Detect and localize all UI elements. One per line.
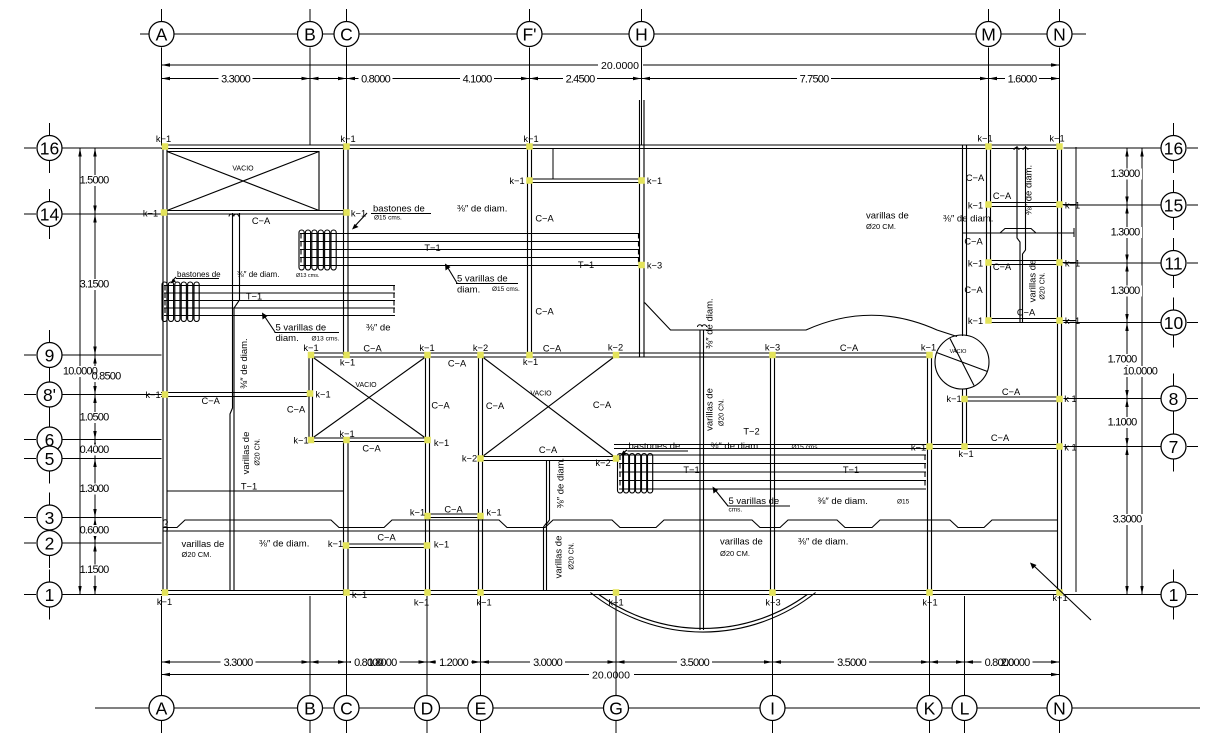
axis cross ticks circle 9 left <box>49 330 51 344</box>
column marker k-1 A/1 <box>162 589 169 596</box>
svg-text:varillas de: varillas de <box>1028 260 1039 303</box>
svg-text:3.1500: 3.1500 <box>80 279 110 291</box>
svg-text:1.8000: 1.8000 <box>368 657 398 669</box>
axis tick right of circle 8 <box>1187 398 1198 400</box>
axis tick left of circle 3 <box>24 517 36 519</box>
axis cross ticks circle 5 left <box>49 434 51 448</box>
svg-text:k−1: k−1 <box>921 343 936 353</box>
column marker k-1 B/6 <box>308 437 315 444</box>
row 11 extension to east wall <box>1062 262 1077 264</box>
left dimension text 10.0000 <box>61 366 99 377</box>
axis tick above circle A top <box>161 9 163 22</box>
wall column N <box>1058 145 1062 595</box>
axis cross ticks circle 15 right <box>1173 180 1175 194</box>
axis row line 10 right <box>1064 322 1161 324</box>
axis tick left of circle 6 <box>24 439 36 441</box>
svg-text:C−A: C−A <box>840 343 859 353</box>
vacio circle at L-10 <box>935 335 989 389</box>
column marker k-1 K/9 <box>926 352 933 359</box>
svg-text:20.0000: 20.0000 <box>592 669 630 681</box>
svg-text:k−1: k−1 <box>1052 593 1067 603</box>
partition line E-G with jog <box>544 461 550 592</box>
svg-text:⅜″ de diam.: ⅜″ de diam. <box>705 298 716 348</box>
leader arrow group3 varillas <box>716 491 728 506</box>
svg-text:k−1: k−1 <box>303 343 318 353</box>
svg-text:3.3000: 3.3000 <box>1113 514 1143 526</box>
column marker k-1 M/10 <box>985 317 992 324</box>
axis tick above circle H top <box>641 9 643 22</box>
column marker k-1 D/9 <box>424 352 431 359</box>
axis extension line A top <box>161 48 163 146</box>
svg-text:1: 1 <box>1169 585 1179 605</box>
svg-text:7.7500: 7.7500 <box>800 74 830 86</box>
right dimension text 1.3000 <box>1108 286 1142 297</box>
svg-text:diam.: diam. <box>457 285 480 296</box>
svg-text:k−3: k−3 <box>765 598 780 608</box>
axis cross ticks circle 3 left <box>49 493 51 507</box>
wall column K <box>928 353 932 595</box>
axis tick left of circle 8' <box>24 394 36 396</box>
svg-text:bastones de: bastones de <box>629 441 681 452</box>
svg-text:bastones de: bastones de <box>373 204 425 215</box>
svg-text:M: M <box>981 24 996 44</box>
svg-text:10: 10 <box>1164 313 1184 333</box>
top overall dimension line 20.0000 <box>162 64 599 66</box>
grid circle 1 left <box>37 582 62 607</box>
svg-text:k−1: k−1 <box>946 394 961 404</box>
svg-text:⅜″ de diam.: ⅜″ de diam. <box>711 441 761 452</box>
svg-text:1.2000: 1.2000 <box>439 657 469 669</box>
column marker k-1 H/FH <box>638 177 645 184</box>
svg-text:k−1: k−1 <box>486 508 501 518</box>
axis cross ticks circle 8 right <box>1173 374 1175 388</box>
svg-text:I: I <box>770 698 775 718</box>
column marker k-1 N/8 <box>1056 396 1063 403</box>
axis extension line H top <box>641 48 643 146</box>
svg-text:VACIO: VACIO <box>950 349 967 355</box>
svg-text:3: 3 <box>45 508 55 528</box>
svg-text:Ø20 CN.: Ø20 CN. <box>255 438 262 465</box>
column marker k-1 N/7 <box>1056 443 1063 450</box>
svg-text:k−1: k−1 <box>647 176 662 186</box>
svg-text:C−A: C−A <box>363 344 382 354</box>
svg-text:k−1: k−1 <box>968 316 983 326</box>
svg-text:3.5000: 3.5000 <box>680 657 710 669</box>
beam row 16 A-N <box>161 145 1062 149</box>
wall column B stair void edge <box>309 353 313 442</box>
svg-text:k−2: k−2 <box>473 343 488 353</box>
svg-text:1: 1 <box>45 585 55 605</box>
svg-text:⅜″ de diam.: ⅜″ de diam. <box>556 458 567 508</box>
svg-text:k−1: k−1 <box>968 259 983 269</box>
axis tick below circle G bottom <box>615 721 617 733</box>
column marker k-1 N/10 <box>1056 317 1063 324</box>
grid circle 16 right <box>1161 136 1186 161</box>
beam row 7 G-N <box>614 445 1062 449</box>
axis extension line N bottom <box>1059 596 1061 695</box>
column marker k-1 M/16 <box>985 143 992 150</box>
svg-text:⅜″ de diam.: ⅜″ de diam. <box>943 214 993 225</box>
grid circle E bottom <box>468 696 493 721</box>
svg-text:1.3000: 1.3000 <box>80 483 110 495</box>
svg-text:Ø15 cms.: Ø15 cms. <box>374 215 402 222</box>
drain pipe line G-I <box>700 330 704 631</box>
axis tick above circle C top <box>346 9 348 22</box>
column marker k-1 D/6 <box>424 437 431 444</box>
svg-text:T−1: T−1 <box>246 292 262 302</box>
shaft rebar line 2 M-N <box>1023 146 1026 322</box>
svg-text:k−1: k−1 <box>414 598 429 608</box>
beam row 15 M-N <box>987 203 1062 207</box>
column marker k-1 C/6 <box>343 437 350 444</box>
svg-text:T−1: T−1 <box>578 260 594 270</box>
diagonal leader bottom right <box>1033 565 1091 620</box>
axis cross ticks circle 6 left <box>49 415 51 429</box>
svg-text:N: N <box>1053 698 1066 718</box>
svg-text:C−A: C−A <box>431 401 450 411</box>
svg-text:G: G <box>609 698 623 718</box>
svg-text:C−A: C−A <box>993 191 1012 201</box>
wall column F' <box>528 145 532 357</box>
beam row 9 B-K <box>309 353 932 357</box>
svg-text:⅜″ de diam.: ⅜″ de diam. <box>457 204 507 215</box>
grid circle 3 left <box>37 505 62 530</box>
svg-text:k−1: k−1 <box>293 436 308 446</box>
shaft line top curls M-N <box>1014 148 1028 151</box>
svg-text:k−1: k−1 <box>419 343 434 353</box>
axis tick right of circle 10 <box>1187 322 1198 324</box>
wall B' top curl hooks <box>229 214 239 216</box>
T-1 rebar lines C-H <box>300 233 640 235</box>
svg-text:C−A: C−A <box>993 262 1012 272</box>
svg-text:k−1: k−1 <box>523 357 538 367</box>
svg-text:1.1500: 1.1500 <box>80 564 110 576</box>
leader arrow group1 bastones <box>354 213 367 227</box>
right dimension text 1.7000 <box>1105 354 1139 365</box>
svg-text:diam.: diam. <box>276 333 299 344</box>
svg-text:varillas de: varillas de <box>866 211 909 222</box>
svg-text:bastones de: bastones de <box>177 270 221 279</box>
svg-text:C−A: C−A <box>444 505 463 515</box>
wall column L upper <box>963 145 967 336</box>
axis extension line B top <box>309 48 311 146</box>
svg-text:T−1: T−1 <box>424 243 440 253</box>
svg-text:C: C <box>340 24 353 44</box>
column marker k-1 B/9 <box>308 352 315 359</box>
beam row 8 L-N <box>963 397 1062 401</box>
svg-text:Ø13 cms.: Ø13 cms. <box>312 336 340 343</box>
column marker k-1 F'/FH <box>526 177 533 184</box>
leader arrow group2 bastones <box>173 277 177 281</box>
axis tick below circle B bottom <box>309 721 311 733</box>
axis row line 5 left <box>62 458 162 460</box>
svg-text:varillas de: varillas de <box>705 388 716 431</box>
column marker k-2 G/5 <box>613 455 620 462</box>
svg-text:C−A: C−A <box>1002 387 1021 397</box>
svg-text:Ø20 CM.: Ø20 CM. <box>866 222 896 231</box>
shaft rebar line 1 M-N <box>1017 146 1020 322</box>
grid circle I bottom <box>760 696 785 721</box>
jogged section line rows 3-2 upper <box>163 520 1058 528</box>
axis cross ticks circle 14 left <box>49 189 51 203</box>
svg-text:VACIO: VACIO <box>232 166 254 173</box>
svg-text:2: 2 <box>45 533 55 553</box>
column marker k-2 E/5 <box>477 455 484 462</box>
leader arrow group3 bastones <box>623 450 627 453</box>
svg-text:1.0500: 1.0500 <box>80 412 110 424</box>
stirrup group C-14 bastones <box>299 230 304 270</box>
svg-text:C: C <box>340 698 353 718</box>
svg-text:C−A: C−A <box>964 285 983 295</box>
axis tick above circle N top <box>1059 9 1061 22</box>
grid circle 15 right <box>1161 193 1186 218</box>
svg-text:7: 7 <box>1169 437 1179 457</box>
axis tick below circle E bottom <box>480 721 482 733</box>
wall column D <box>426 353 430 595</box>
axis tick above circle M top <box>988 9 990 22</box>
bottom overall dimension line 20.0000 <box>162 674 590 676</box>
svg-text:Ø20 CN.: Ø20 CN. <box>569 542 576 569</box>
svg-text:3.3000: 3.3000 <box>224 657 254 669</box>
T-1 rebar lines A-C <box>164 285 395 287</box>
axis extension line M top <box>988 48 990 146</box>
grid circle 9 left <box>37 343 62 368</box>
svg-text:A: A <box>156 24 168 44</box>
svg-text:C−A: C−A <box>362 444 381 454</box>
beam row 5 E-G <box>479 457 619 461</box>
left segment dimension line <box>94 148 96 595</box>
svg-text:B: B <box>304 24 316 44</box>
column marker k-1 C/16 <box>343 143 350 150</box>
svg-text:3.3000: 3.3000 <box>221 74 251 86</box>
grid circle 8 right <box>1161 386 1186 411</box>
svg-text:C−A: C−A <box>593 400 612 410</box>
axis row line 16 left <box>62 147 162 149</box>
svg-text:1.7000: 1.7000 <box>1108 354 1138 366</box>
stirrup group G-5 bastones <box>618 454 623 494</box>
column marker k-3 H/11 <box>638 262 645 269</box>
svg-text:1.3000: 1.3000 <box>1111 168 1141 180</box>
axis cross ticks circle 10 right <box>1173 298 1175 312</box>
svg-text:k−1: k−1 <box>523 134 538 144</box>
svg-text:C−A: C−A <box>377 533 396 543</box>
left dimension text 0.6000 <box>85 525 113 536</box>
svg-text:k−3: k−3 <box>765 343 780 353</box>
svg-text:k−2: k−2 <box>462 454 477 464</box>
svg-text:8': 8' <box>43 385 56 405</box>
svg-text:1.3000: 1.3000 <box>1111 285 1141 297</box>
column marker k-1 E/1 <box>477 589 484 596</box>
jogged section line M-N rows 15-11 <box>963 229 1075 234</box>
svg-text:⅜″ de diam.: ⅜″ de diam. <box>239 338 250 388</box>
svg-text:5 varillas de: 5 varillas de <box>457 274 508 285</box>
grid circle A bottom <box>149 696 174 721</box>
svg-text:14: 14 <box>40 204 60 224</box>
beam row 11 M-N <box>987 261 1062 265</box>
grid circle 8' left <box>37 382 62 407</box>
svg-text:k−1: k−1 <box>977 134 992 144</box>
beam F'-H mezzanine <box>528 179 645 183</box>
svg-text:C−A: C−A <box>287 405 306 415</box>
jogged section line left end curls <box>163 520 167 531</box>
axis row line 16 right <box>1064 147 1161 149</box>
left dimension text 0.4000 <box>85 445 113 456</box>
svg-text:k−1: k−1 <box>143 209 158 219</box>
svg-text:k 1: k 1 <box>1064 394 1076 404</box>
svg-text:k−1: k−1 <box>352 590 367 600</box>
wall column H <box>640 100 645 357</box>
svg-text:1.3000: 1.3000 <box>1111 227 1141 239</box>
axis row line 1 left <box>62 594 162 596</box>
wall column E <box>479 353 483 595</box>
svg-text:20.0000: 20.0000 <box>601 60 639 72</box>
svg-text:varillas de: varillas de <box>720 537 763 548</box>
column marker k-1 L/8 <box>961 396 968 403</box>
svg-text:varillas de: varillas de <box>182 539 225 550</box>
column marker k-1 F'/9 <box>526 352 533 359</box>
svg-text:T−1: T−1 <box>241 482 257 492</box>
column marker k-1 C/1 <box>343 589 350 596</box>
svg-text:k−2: k−2 <box>608 343 623 353</box>
axis cross ticks circle 1 right <box>1173 570 1175 584</box>
column marker k-1 M/11 <box>985 259 992 266</box>
column marker k-1 F'/16 <box>526 143 533 150</box>
svg-text:⅜″ de diam.: ⅜″ de diam. <box>1024 165 1035 215</box>
column marker k-1 N/1 <box>1056 589 1063 596</box>
column marker k-1 M/15 <box>985 201 992 208</box>
svg-text:0.6000: 0.6000 <box>80 525 110 537</box>
axis tick below circle N bottom <box>1059 721 1061 733</box>
svg-text:k−1: k−1 <box>922 598 937 608</box>
axis cross ticks circle 11 right <box>1173 238 1175 252</box>
leader arrow group2 varillas <box>265 317 275 332</box>
axis tick below circle L bottom <box>964 721 966 733</box>
column marker k-1 A/16 <box>162 143 169 150</box>
column marker k-1 N/16 <box>1056 143 1063 150</box>
column marker k-1 B/8' <box>307 390 314 397</box>
column marker k-1 N/15 <box>1056 201 1063 208</box>
column marker k-2 E/9 <box>477 352 484 359</box>
axis row line 9 left <box>62 354 162 356</box>
axis tick below circle K bottom <box>929 721 931 733</box>
svg-text:2.4500: 2.4500 <box>566 74 596 86</box>
grid circle A top <box>149 22 174 47</box>
axis cross ticks circle 2 left <box>49 518 51 532</box>
right overall dimension line 10.0000 <box>1141 148 1143 595</box>
axis tick left of circle 16 <box>24 147 36 149</box>
svg-text:15: 15 <box>1164 195 1183 215</box>
axis tick below circle I bottom <box>772 721 774 733</box>
axis tick above circle F' top <box>529 9 531 22</box>
axis extension line I bottom <box>772 596 774 695</box>
grid circle M top <box>976 22 1001 47</box>
svg-text:k−1: k−1 <box>911 443 926 453</box>
svg-text:5 varillas de: 5 varillas de <box>729 496 780 507</box>
svg-text:0.8000: 0.8000 <box>361 74 391 86</box>
wall column A <box>163 145 167 595</box>
column marker k-3 I/1 <box>769 589 776 596</box>
axis extension line A bottom <box>161 596 163 695</box>
axis row line 15 right <box>1064 204 1161 206</box>
svg-text:C−A: C−A <box>535 307 554 317</box>
svg-text:k−1: k−1 <box>340 358 355 368</box>
svg-text:VACIO: VACIO <box>530 391 552 398</box>
top segment dimension line <box>162 78 1060 80</box>
svg-text:L: L <box>960 698 970 718</box>
column marker k-1 E/3 <box>477 513 484 520</box>
grid circle 7 right <box>1161 434 1186 459</box>
axis row line 8 right <box>1064 398 1161 400</box>
svg-text:B: B <box>304 698 316 718</box>
svg-text:k−1: k−1 <box>1065 259 1080 269</box>
grid circle B bottom <box>298 696 323 721</box>
svg-text:k−1: k−1 <box>434 438 449 448</box>
axis extension line C top <box>346 48 348 146</box>
column marker k-1 K/1 <box>926 589 933 596</box>
grid circle B top <box>298 22 323 47</box>
svg-text:5: 5 <box>45 449 55 469</box>
svg-text:Ø15: Ø15 <box>897 499 910 506</box>
svg-text:16: 16 <box>1164 138 1183 158</box>
svg-text:Ø13 cms.: Ø13 cms. <box>296 273 320 279</box>
svg-text:3.0000: 3.0000 <box>533 657 563 669</box>
svg-text:VACIO: VACIO <box>355 382 377 389</box>
svg-text:k−1: k−1 <box>958 449 973 459</box>
large arc below row 1 inner <box>599 595 807 629</box>
axis extension line B bottom <box>309 596 311 695</box>
grid circle 1 right <box>1161 582 1186 607</box>
svg-text:10.0000: 10.0000 <box>1123 366 1158 378</box>
wall B' zigzag partition <box>230 213 240 591</box>
beam row 3 D-E <box>426 514 483 518</box>
beam row 2 C-D <box>345 544 430 548</box>
svg-text:2.0000: 2.0000 <box>1001 657 1031 669</box>
column marker k-1 K/7 <box>926 443 933 450</box>
left dimension text 1.0500 <box>85 412 113 423</box>
axis extension line E bottom <box>480 596 482 695</box>
grid circle 10 right <box>1161 310 1186 335</box>
axis extension line K bottom <box>929 596 931 695</box>
svg-text:T−2: T−2 <box>743 427 759 437</box>
axis extension line L bottom <box>964 596 966 695</box>
curved patio boundary H to L <box>645 303 958 337</box>
svg-text:k−1: k−1 <box>509 176 524 186</box>
wall column L lower <box>963 389 967 449</box>
axis cross ticks circle 7 right <box>1173 422 1175 436</box>
svg-text:C−A: C−A <box>252 216 271 226</box>
svg-text:C−A: C−A <box>991 433 1010 443</box>
wall column C lower <box>344 442 349 595</box>
axis extension line D bottom <box>426 596 428 695</box>
svg-text:C−A: C−A <box>486 401 505 411</box>
axis tick right of circle 7 <box>1187 446 1198 448</box>
axis row line 3 left <box>62 517 162 519</box>
svg-text:k−1: k−1 <box>476 598 491 608</box>
axis tick right of circle 16 <box>1187 147 1198 149</box>
svg-text:4.1000: 4.1000 <box>463 74 493 86</box>
grid circle G bottom <box>604 696 629 721</box>
axis tick right of circle 15 <box>1187 204 1198 206</box>
jogged section line rows 3-2 lower straight <box>163 530 1058 532</box>
row 15 extension to east wall <box>1062 204 1077 206</box>
svg-text:C−A: C−A <box>964 237 983 247</box>
column marker k-1 D/2 <box>424 542 431 549</box>
row 10 extension to east wall <box>1062 320 1077 322</box>
grid circle N top <box>1047 22 1072 47</box>
vacio box A-B rows 16-14 <box>167 152 319 212</box>
grid circle C top <box>334 22 359 47</box>
vacio circle cross <box>937 339 988 386</box>
